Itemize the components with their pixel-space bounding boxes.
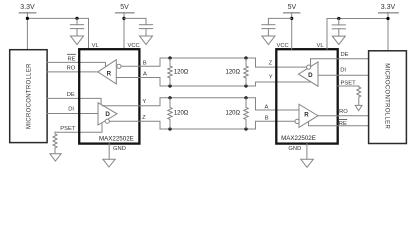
wire PSET (right) <box>338 85 359 87</box>
resistor 120ohm pair1 right <box>226 58 249 86</box>
supply 5V (right) <box>284 4 300 13</box>
svg-text:GND: GND <box>288 146 301 152</box>
wire A (right) <box>256 98 300 110</box>
svg-text:VL: VL <box>92 43 100 49</box>
svg-text:Y: Y <box>142 99 146 105</box>
svg-text:MAX22502E: MAX22502E <box>281 135 316 142</box>
svg-text:VL: VL <box>317 43 325 49</box>
wire RE (left) <box>47 62 106 66</box>
wire RO (left) <box>47 71 98 73</box>
svg-text:Z: Z <box>269 60 273 66</box>
wire PSET (left) <box>55 124 102 133</box>
ground (C2) <box>140 36 153 45</box>
wire DE (left) <box>47 98 102 104</box>
resistor 120ohm pair1 left <box>168 58 189 86</box>
svg-text:A: A <box>143 71 147 77</box>
wire RE (right) <box>309 122 369 126</box>
svg-text:Z: Z <box>142 115 146 121</box>
wire 5V branch to cap2 <box>124 18 146 24</box>
wire bus pair2 top rail <box>160 97 255 99</box>
chip MAX22502E (right) <box>276 49 337 143</box>
capacitor C3 bypass 5V right <box>262 25 275 36</box>
bubble Z output (left) <box>105 119 109 123</box>
svg-text:R: R <box>107 70 112 77</box>
wire Y (left) <box>102 98 160 106</box>
wire A (left) <box>116 78 160 87</box>
svg-text:PSET: PSET <box>341 80 357 86</box>
svg-text:RE: RE <box>339 121 347 127</box>
svg-text:VCC: VCC <box>277 43 289 49</box>
svg-text:5V: 5V <box>120 4 129 11</box>
chip MAX22502E (left) <box>79 49 139 143</box>
wire 3.3V down to microcontroller <box>26 12 28 49</box>
wire bus pair1 top rail <box>160 57 255 59</box>
capacitor C2 bypass 5V left <box>139 25 152 36</box>
svg-text:120Ω: 120Ω <box>174 70 189 76</box>
receiver R (right) <box>299 104 318 127</box>
svg-text:RE: RE <box>67 56 75 62</box>
node junction 3.3V (right) <box>386 17 389 20</box>
wire DI (left) <box>47 113 99 115</box>
ground (right PSET) <box>355 105 362 110</box>
ground (C4) <box>332 36 345 45</box>
wire 3.3V down to microcontroller (right) <box>387 12 389 50</box>
node junction cap1 <box>75 17 78 20</box>
svg-text:MAX22502E: MAX22502E <box>99 135 134 142</box>
svg-text:A: A <box>265 105 269 111</box>
svg-text:MICROCONTROLLER: MICROCONTROLLER <box>27 63 33 129</box>
svg-text:D: D <box>105 111 110 118</box>
svg-text:DI: DI <box>68 106 74 112</box>
wire 5V down to VCC <box>123 12 125 49</box>
svg-text:Y: Y <box>269 74 273 80</box>
wire RO (right) <box>318 115 369 117</box>
pin label RE (right, with overbar) <box>339 119 347 127</box>
bubble B input (left) <box>117 64 121 68</box>
wire Z (right) <box>256 58 307 67</box>
ground (right chip) <box>301 159 314 167</box>
svg-text:R: R <box>304 112 309 119</box>
svg-text:120Ω: 120Ω <box>226 111 241 117</box>
svg-text:D: D <box>308 72 313 79</box>
node junction 3.3V <box>26 17 29 20</box>
svg-text:RO: RO <box>339 109 348 115</box>
ground (left chip) <box>103 159 115 167</box>
bubble Z output (right) <box>307 65 311 69</box>
svg-text:3.3V: 3.3V <box>20 4 35 11</box>
wire 5V branch to cap (right) <box>268 18 291 24</box>
wire B (right) <box>256 121 296 129</box>
microcontroller (right) <box>369 51 407 144</box>
supply 3.3V (right) <box>378 4 398 13</box>
wire GND (left chip) <box>108 144 110 160</box>
svg-text:DE: DE <box>67 92 75 98</box>
supply 3.3V (left) <box>19 4 36 13</box>
ground (C3) <box>262 36 275 45</box>
svg-text:DE: DE <box>341 52 349 58</box>
supply 5V (left) <box>115 4 134 13</box>
svg-text:B: B <box>265 115 269 121</box>
svg-text:GND: GND <box>113 146 126 152</box>
resistor PSET (right) <box>357 86 361 105</box>
wire DE (right) <box>311 59 369 67</box>
capacitor C1 bypass 3.3V left <box>70 18 83 36</box>
svg-text:VCC: VCC <box>128 43 140 49</box>
node junction 5V (right) <box>290 17 293 20</box>
wire GND (right chip) <box>306 144 308 160</box>
wire DI (right) <box>318 74 369 76</box>
wire 3.3V rail to VL <box>27 18 88 49</box>
node junction cap4 <box>337 17 340 20</box>
pin label RE (left, with overbar) <box>67 54 75 62</box>
capacitor C4 bypass 3.3V right <box>332 19 345 37</box>
resistor 120ohm pair2 left <box>168 98 189 129</box>
svg-text:RO: RO <box>67 65 76 71</box>
ground (C1) <box>71 36 84 45</box>
wire Y (right) <box>256 82 312 86</box>
svg-text:120Ω: 120Ω <box>174 111 189 117</box>
resistor 120ohm pair2 right <box>226 98 249 129</box>
receiver R (left) <box>98 60 117 84</box>
wire bus pair2 bottom rail <box>160 128 255 130</box>
driver D (right) <box>299 62 319 86</box>
wire bus pair1 bottom rail <box>160 85 255 87</box>
wire 3.3V rail to VL (right) <box>327 19 388 50</box>
svg-text:MICROCONTROLLER: MICROCONTROLLER <box>384 63 390 129</box>
wire 5V down to VCC (right) <box>291 12 293 49</box>
node junctions termination <box>168 56 247 130</box>
svg-text:3.3V: 3.3V <box>381 4 396 11</box>
svg-text:PSET: PSET <box>60 126 76 132</box>
wire B (left) <box>121 58 160 66</box>
resistor PSET (left) <box>53 132 57 154</box>
node junction 5V <box>122 17 125 20</box>
svg-text:DI: DI <box>340 68 346 74</box>
svg-text:B: B <box>143 60 147 66</box>
svg-text:120Ω: 120Ω <box>226 70 241 76</box>
svg-text:5V: 5V <box>288 4 297 11</box>
microcontroller (left) <box>10 50 47 143</box>
bubble B input (right) <box>295 119 299 123</box>
driver D (left) <box>98 103 117 125</box>
ground (left PSET) <box>50 154 61 161</box>
wire Z (left) <box>109 121 160 129</box>
